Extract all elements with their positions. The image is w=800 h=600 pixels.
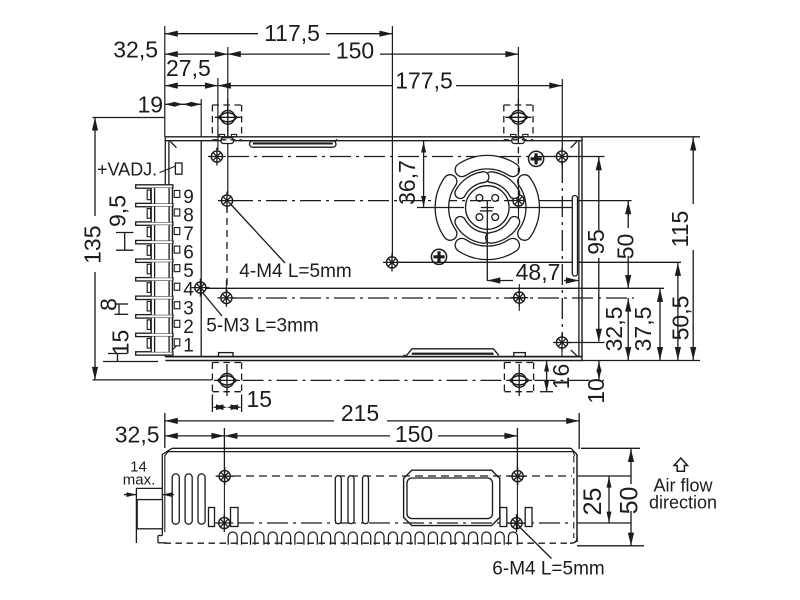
- dimension 9,5 bracket: [116, 233, 134, 251]
- dimension 9,5 label: [104, 195, 130, 227]
- dimension 16 label: [548, 364, 574, 390]
- bottom edge tab left: [219, 353, 234, 357]
- top bracket 1 dashed outline: [212, 105, 241, 140]
- dimension 215 line: [165, 418, 579, 424]
- label 14 max.: [123, 459, 156, 489]
- svg-text:6-M4 L=5mm: 6-M4 L=5mm: [492, 559, 604, 580]
- dimension 117,5 label: [264, 20, 320, 46]
- bottom view screw vertical left: [223, 470, 225, 529]
- bottom view left vent slots: [172, 474, 205, 524]
- dimension 135 label: [80, 226, 106, 264]
- dimension 48,7 label: [516, 259, 561, 285]
- bottom view extension lines for 150: [224, 428, 517, 470]
- label 6-M4 leader: [519, 527, 552, 559]
- top bracket 1 slot hole: [215, 99, 241, 136]
- bottom view row extension y=523: [577, 522, 631, 524]
- bottom view right edge: [574, 454, 577, 542]
- air flow arrow: [674, 458, 687, 471]
- bottom view bottom hidden edge: [165, 542, 573, 544]
- bottom bracket 2 dashed outline: [504, 363, 533, 392]
- svg-text:16: 16: [548, 364, 574, 390]
- extension line x=518.4 (bracket-2 hole centerline): [517, 47, 519, 112]
- corner chamfer bottom-left: [170, 346, 176, 352]
- svg-text:215: 215: [341, 400, 379, 426]
- dimension 95 label: [583, 229, 609, 255]
- top flange slot under bracket 1: [221, 138, 234, 144]
- dimension 25 line: [607, 476, 612, 523]
- dimension 32,5 right label: [601, 307, 627, 352]
- side hole bottom-right: [553, 334, 571, 357]
- dimension 15 bracket label: [247, 386, 273, 412]
- extension line x=227.8 (bracket-1 hole centerline): [227, 47, 229, 194]
- top bracket 1 feet tabs: [219, 134, 236, 136]
- fan center cross: [480, 201, 494, 214]
- hole x=519 y=298: [510, 284, 528, 311]
- svg-text:177,5: 177,5: [395, 68, 453, 94]
- bottom view hidden row y=523: [233, 522, 572, 524]
- top bracket 2 feet tabs: [511, 134, 528, 136]
- hole row centerline y=298.0: [232, 297, 634, 299]
- svg-text:117,5: 117,5: [264, 20, 320, 46]
- hole x=227 y=298: [217, 280, 235, 307]
- dimension 115 label: [667, 211, 693, 248]
- bottom view small rect 1: [209, 508, 215, 527]
- bottom view comb vent teeth: [228, 532, 517, 545]
- VADJ leader line: [160, 166, 176, 172]
- dimension 15 left ticks: [103, 354, 158, 362]
- dimension 177,5 label: [395, 68, 453, 94]
- svg-text:150: 150: [336, 38, 374, 64]
- svg-text:48,7: 48,7: [516, 259, 561, 285]
- inner wall line x=201.2: [200, 141, 202, 357]
- bottom view small rect 4: [525, 508, 532, 527]
- right edge vent slot: [572, 196, 577, 277]
- label 4-M4 leader: [231, 204, 286, 263]
- dimension 50 bottom line: [628, 448, 634, 546]
- svg-text:10: 10: [583, 378, 609, 404]
- dimension 37,5 line: [657, 288, 663, 360]
- dimension 50 line: [625, 201, 631, 289]
- bottom view right foot corner: [570, 538, 577, 543]
- corner chamfer top-left: [170, 142, 176, 148]
- extension line, case left edge plane x=164.8: [164, 26, 166, 137]
- terminal block cells: [147, 188, 180, 352]
- hole row line y=342.5 bottom right: [568, 342, 605, 344]
- dimension 27,5/177,5 line: [165, 83, 563, 89]
- side hole top-left: [208, 148, 226, 166]
- label 5-M3 L=3mm: [206, 316, 318, 337]
- svg-text:direction: direction: [649, 493, 717, 513]
- svg-text:1: 1: [183, 335, 194, 356]
- bottom view middle vent slots: [335, 476, 368, 524]
- dimension 50,5 line: [675, 262, 681, 360]
- bottom edge louvre slot: [403, 349, 499, 356]
- VADJ potentiometer: [175, 163, 182, 174]
- top flange slot under bracket 2: [512, 138, 525, 144]
- bottom view top edge extension: [581, 447, 640, 449]
- bottom view left edge: [162, 454, 165, 536]
- vertical dashed x=227 to 5-M3 screw: [226, 206, 228, 292]
- case bottom edge (double line): [165, 357, 582, 361]
- cover screw top-right: [529, 151, 544, 166]
- svg-text:9,5: 9,5: [104, 195, 130, 227]
- fan guard arcs: [442, 162, 533, 253]
- hole row centerline y=156.5: [228, 156, 605, 158]
- bottom view top edge: [162, 448, 577, 456]
- dimension 135 line: [92, 118, 98, 380]
- vertical centerline x=562.3: [561, 162, 563, 337]
- fan hub holes: [476, 195, 499, 221]
- hole row centerline y=200.6 (4-M4): [232, 200, 632, 202]
- svg-text:27,5: 27,5: [166, 55, 211, 81]
- extension line, inner wall plane x=201.2 (19 dim): [200, 99, 202, 137]
- case top edge extension right: [582, 136, 700, 138]
- dimension 16 tick: [540, 391, 553, 393]
- dimension 135 reference line top: [93, 117, 165, 119]
- dimension 48,7 line: [487, 277, 579, 283]
- svg-text:8: 8: [95, 298, 121, 311]
- dimension 32,5 bottom label: [115, 421, 160, 447]
- terminal block separator plates: [136, 185, 173, 355]
- svg-text:36,7: 36,7: [394, 160, 420, 205]
- dimension 115 line: [690, 137, 696, 361]
- svg-text:+VADJ.: +VADJ.: [97, 160, 157, 180]
- dimension 215 label: [341, 400, 379, 426]
- dimension 8 label: [95, 298, 121, 311]
- dimension 25 label: [579, 488, 607, 516]
- 4-M4 hole right: [510, 184, 528, 218]
- terminal numbers 9-1: [183, 187, 194, 356]
- bottom view screw top-left: [216, 467, 234, 485]
- label window outer: [404, 470, 500, 525]
- fan hub circle: [466, 186, 510, 230]
- svg-text:15: 15: [108, 330, 134, 356]
- bottom edge tab right: [514, 353, 526, 357]
- label 4-M4 L=5mm: [239, 261, 351, 282]
- dimension 16 line: [544, 361, 549, 392]
- 4-M4 hole left: [218, 192, 236, 212]
- 6-M4 screw bottom-right: [508, 514, 526, 532]
- dimension 32,5 right line: [625, 298, 631, 361]
- svg-text:max.: max.: [123, 472, 156, 489]
- side hole top-right: [553, 148, 571, 166]
- dimension 36,7 line: [421, 141, 426, 208]
- bottom edge extension right: [582, 360, 700, 362]
- label Air flow: [653, 476, 713, 496]
- dimension 36,7 label: [394, 160, 420, 205]
- bottom view extension lines for 215: [165, 413, 579, 449]
- dimension 15 bracket extension lines: [212, 395, 241, 413]
- bottom view small rect 3: [500, 508, 507, 527]
- svg-text:115: 115: [667, 211, 693, 248]
- svg-text:95: 95: [583, 229, 609, 255]
- top edge louvre slot: [250, 139, 338, 147]
- svg-text:25: 25: [579, 488, 607, 516]
- dimension 50 label: [613, 234, 639, 260]
- bottom view screw top-right: [509, 467, 527, 485]
- dimension 117,5 line: [165, 31, 393, 37]
- dimension 150 top label: [336, 38, 374, 64]
- svg-text:50: 50: [613, 234, 639, 260]
- dimension 8 bracket: [114, 304, 128, 314]
- dimension 10 label: [583, 378, 609, 404]
- hole row line y=262.3: [398, 261, 681, 263]
- svg-text:5-M3 L=3mm: 5-M3 L=3mm: [206, 316, 318, 337]
- svg-text:4-M4 L=5mm: 4-M4 L=5mm: [239, 261, 351, 282]
- dimension 14max arrows: [124, 492, 174, 497]
- cover screw mid: [431, 249, 446, 264]
- bracket-2 centerline over fan: [517, 126, 519, 196]
- dimension 32,5/150 top line: [165, 51, 519, 57]
- case top edge (double line): [165, 137, 582, 141]
- svg-text:32,5: 32,5: [115, 421, 160, 447]
- 5-M3 hole: [191, 279, 209, 297]
- hole row line y=288.3 (5-M3): [206, 287, 664, 289]
- case left edge (double line): [165, 137, 169, 357]
- dimension 19 label: [138, 92, 164, 118]
- fan vertical centerline: [486, 214, 488, 281]
- svg-text:135: 135: [80, 226, 106, 264]
- dimension 32,5 top label: [113, 37, 158, 63]
- svg-text:32,5: 32,5: [113, 37, 158, 63]
- corner chamfer top-right: [571, 142, 577, 148]
- dimension 135 reference line bottom: [93, 379, 213, 381]
- svg-text:32,5: 32,5: [601, 307, 627, 352]
- dimension 15 bracket arrows: [212, 404, 241, 410]
- bottom bracket 1 slot hole: [214, 364, 240, 396]
- bottom view small rect 2: [231, 508, 239, 527]
- dimension 14max tick: [136, 488, 162, 543]
- dimension 15 left label: [108, 330, 134, 356]
- dimension 27,5 label: [166, 55, 211, 81]
- connector protrusion: [137, 500, 162, 529]
- label direction: [649, 493, 717, 513]
- label 6-M4 L=5mm: [492, 559, 604, 580]
- fan horizontal centerline: [417, 207, 578, 209]
- dimension 50,5 label: [668, 296, 694, 341]
- svg-text:150: 150: [395, 421, 433, 447]
- svg-text:50,5: 50,5: [668, 296, 694, 341]
- bottom bracket 2 slot hole: [506, 364, 532, 396]
- bottom view row extension y=476: [577, 475, 631, 477]
- bottom view left foot: [158, 536, 166, 543]
- bottom brackets centerline: [243, 379, 605, 381]
- dimension 19 line: [165, 102, 201, 107]
- top bracket 2 slot hole: [505, 99, 531, 136]
- svg-text:37,5: 37,5: [630, 307, 656, 352]
- extension line x=562.3 (177.5 dim to side hole): [561, 79, 563, 150]
- svg-text:50: 50: [616, 487, 644, 515]
- dimension 37,5 label: [630, 307, 656, 352]
- svg-text:19: 19: [138, 92, 164, 118]
- hole x=392 y=262: [383, 253, 401, 271]
- extension line x=217.9 (27.5 dim / hole row): [217, 78, 219, 150]
- dimension 32,5/150 bottom line: [165, 433, 518, 439]
- +VADJ. label: [97, 160, 157, 180]
- dimension 50 bottom label: [616, 487, 644, 515]
- extension line x=392.4 (117.5 dim, runs to inner screw): [391, 26, 393, 256]
- top bracket 2 dashed outline: [504, 105, 533, 140]
- bottom view bottom edge extension: [577, 545, 644, 547]
- dimension 95 line: [596, 157, 602, 342]
- dimension 150 bottom label: [395, 421, 433, 447]
- case right edge (double line): [579, 137, 582, 361]
- dimension 10 line: [597, 361, 602, 381]
- bottom view screw bottom-left: [215, 514, 233, 532]
- svg-text:15: 15: [247, 386, 273, 412]
- bottom bracket 1 dashed outline: [212, 363, 241, 392]
- corner chamfer bottom-right: [571, 350, 578, 356]
- label 5-M3 leader: [203, 293, 223, 317]
- bottom view screw vertical right: [516, 465, 518, 529]
- label window inner: [407, 478, 493, 519]
- bottom view hidden row y=476: [233, 475, 572, 477]
